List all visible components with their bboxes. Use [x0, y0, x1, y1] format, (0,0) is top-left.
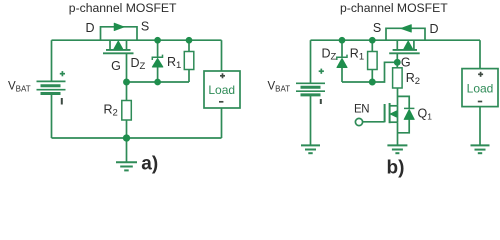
- svg-text:a): a): [141, 153, 158, 174]
- svg-text:D: D: [85, 21, 94, 35]
- svg-text:D: D: [429, 22, 438, 36]
- svg-text:p-channel MOSFET: p-channel MOSFET: [69, 1, 177, 15]
- svg-text:VBAT: VBAT: [268, 80, 291, 93]
- svg-text:Q1: Q1: [418, 106, 433, 121]
- svg-text:Load: Load: [208, 83, 235, 97]
- svg-text:G: G: [111, 59, 121, 73]
- svg-text:R1: R1: [350, 47, 364, 63]
- svg-text:R1: R1: [167, 55, 181, 71]
- svg-text:S: S: [373, 21, 381, 35]
- svg-text:Load: Load: [467, 82, 494, 96]
- svg-text:p-channel MOSFET: p-channel MOSFET: [340, 1, 448, 15]
- svg-text:VBAT: VBAT: [8, 80, 31, 93]
- svg-text:DZ: DZ: [322, 47, 337, 63]
- svg-text:EN: EN: [354, 103, 369, 115]
- svg-text:S: S: [141, 20, 149, 34]
- svg-text:b): b): [387, 157, 405, 178]
- svg-text:DZ: DZ: [131, 56, 146, 72]
- svg-text:R2: R2: [406, 71, 420, 87]
- svg-text:G: G: [401, 55, 411, 69]
- svg-text:R2: R2: [104, 103, 118, 119]
